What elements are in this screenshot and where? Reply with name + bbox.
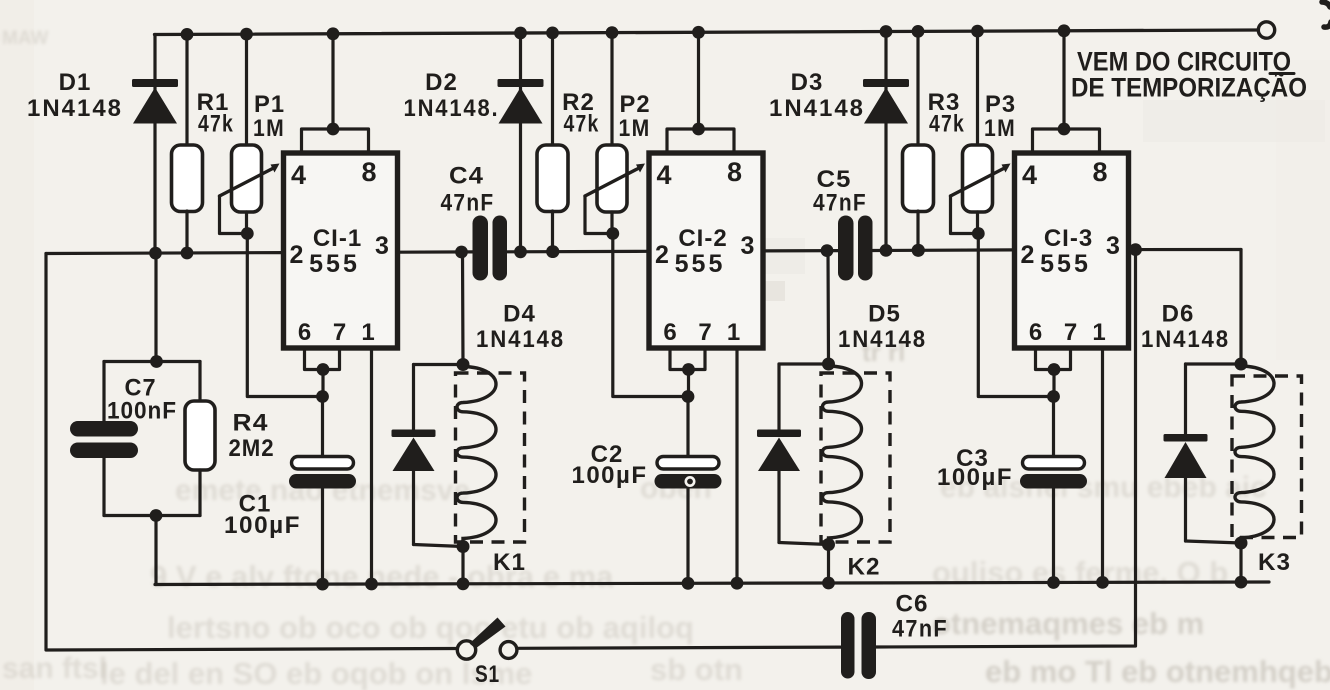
label C5 value bbox=[813, 190, 867, 217]
label C4 value bbox=[441, 190, 495, 217]
svg-text:47nF: 47nF bbox=[813, 190, 867, 217]
svg-text:S1: S1 bbox=[475, 661, 500, 688]
op-amp-timer U1 CI-1 555 box bbox=[284, 153, 398, 348]
label P3 bbox=[985, 91, 1016, 118]
label R2 bbox=[562, 89, 595, 116]
pin 2 label bbox=[655, 241, 669, 269]
svg-text:lertsno ob oco ob qoo etu ob a: lertsno ob oco ob qoo etu ob aqiloq bbox=[167, 610, 694, 645]
wire C2 top bbox=[686, 397, 689, 458]
potentiometer P2 bbox=[585, 145, 645, 212]
wire bottom rail right segment bbox=[876, 250, 1136, 647]
junction R1 supply rail bbox=[181, 28, 194, 41]
diode D2 bbox=[498, 79, 544, 124]
label CI-3 bbox=[1044, 225, 1093, 252]
label S1 bbox=[475, 661, 500, 688]
svg-text:CI-3: CI-3 bbox=[1044, 225, 1093, 252]
svg-text:1M: 1M bbox=[984, 115, 1016, 142]
junction C7-R4 bottom node bbox=[150, 509, 163, 522]
svg-text:C6: C6 bbox=[896, 591, 929, 618]
label P3 value bbox=[984, 115, 1016, 142]
wire C7-R4 riser bbox=[154, 253, 157, 362]
wire C3 top bbox=[1052, 397, 1055, 458]
pin 8 label bbox=[727, 157, 742, 187]
node K2 top bbox=[822, 358, 835, 371]
label R3 value bbox=[929, 111, 965, 138]
svg-text:6: 6 bbox=[298, 319, 311, 346]
svg-text:9 V e alv ftone nede - obra e: 9 V e alv ftone nede - obra e ma bbox=[150, 559, 614, 594]
svg-text:47nF: 47nF bbox=[441, 190, 495, 217]
svg-text:CI-2: CI-2 bbox=[678, 225, 727, 252]
svg-text:1: 1 bbox=[1092, 319, 1105, 346]
wire pin 1 to ground bbox=[1101, 348, 1104, 582]
svg-text:K2: K2 bbox=[848, 554, 881, 581]
node K3 top bbox=[1235, 358, 1248, 371]
junction CI-1 supply rail bbox=[327, 27, 340, 40]
wire C1 bottom bbox=[321, 489, 324, 585]
label P2 value bbox=[619, 115, 651, 142]
junction node timing bbox=[682, 390, 695, 403]
label R4 value bbox=[229, 435, 275, 462]
label C1 bbox=[239, 491, 272, 518]
relay K2 dashed case bbox=[821, 373, 890, 542]
svg-text:1M: 1M bbox=[619, 115, 651, 142]
junction relay K2 feed bbox=[821, 244, 834, 257]
label D6 bbox=[1162, 301, 1195, 328]
label P1 bbox=[254, 91, 285, 118]
svg-text:D3: D3 bbox=[791, 69, 824, 96]
pin 8 label bbox=[361, 157, 376, 187]
wire P3 top bbox=[976, 31, 979, 146]
diode D5 flyback bbox=[757, 364, 829, 545]
junction C3 ground bbox=[1047, 576, 1060, 589]
relay coil K3 bbox=[1235, 366, 1274, 542]
svg-text:4: 4 bbox=[656, 160, 671, 190]
svg-text:1N4148: 1N4148 bbox=[1141, 326, 1230, 353]
wire C7-R4 loop bottom bbox=[104, 514, 200, 517]
wire R2 bottom bbox=[551, 211, 554, 252]
junction pins 4-8 node bbox=[692, 123, 705, 136]
svg-text:100µF: 100µF bbox=[224, 512, 301, 539]
svg-text:1N4148: 1N4148 bbox=[476, 326, 565, 353]
wire K1 feed bbox=[461, 252, 465, 365]
junction D2 supply rail bbox=[514, 27, 527, 40]
diode D6 flyback bbox=[1164, 364, 1242, 543]
wire CI-3 pin 3 output bbox=[1129, 248, 1242, 251]
label C7 bbox=[125, 375, 157, 402]
wire C1 top bbox=[321, 397, 324, 458]
capacitor C4 bbox=[473, 216, 508, 281]
label P2 bbox=[620, 91, 651, 118]
junction C1 ground bbox=[316, 578, 329, 591]
svg-text:1N4148.: 1N4148. bbox=[404, 95, 500, 122]
pin 8 label bbox=[1092, 157, 1107, 187]
junction R2 pullup bbox=[547, 245, 560, 258]
capacitor C3 bbox=[1020, 457, 1087, 489]
junction R3 pullup bbox=[912, 244, 925, 257]
junction D3 clamp bbox=[880, 244, 893, 257]
svg-text:555: 555 bbox=[675, 250, 726, 278]
label K1 bbox=[493, 549, 526, 576]
svg-text:8: 8 bbox=[361, 157, 376, 187]
wire C2 bottom bbox=[686, 489, 689, 584]
label D4 bbox=[503, 301, 536, 328]
junction P2 supply rail bbox=[606, 26, 619, 39]
pin 3 label bbox=[1106, 232, 1120, 260]
wire K1 to ground bbox=[461, 547, 464, 584]
label C3 bbox=[956, 445, 989, 472]
pin 1 label bbox=[1092, 319, 1105, 346]
junction CI-3 output node bbox=[1129, 243, 1142, 256]
junction R3 bottom bbox=[912, 244, 925, 257]
wire R3 bottom bbox=[916, 211, 919, 250]
junction R2 supply rail bbox=[546, 27, 559, 40]
capacitor C2 bbox=[655, 457, 722, 489]
svg-text:7: 7 bbox=[1064, 319, 1077, 346]
label K2 bbox=[848, 554, 881, 581]
pin 3 label bbox=[375, 232, 389, 260]
wire pins 6-7 bracket bbox=[670, 348, 705, 397]
label R2 value bbox=[564, 111, 600, 138]
junction R3 supply rail bbox=[912, 25, 925, 38]
svg-text:47k: 47k bbox=[564, 111, 600, 138]
svg-text:R4: R4 bbox=[233, 410, 269, 437]
junction pin 1 ground bbox=[731, 577, 744, 590]
junction relay K1 feed bbox=[455, 246, 468, 259]
label D3 bbox=[791, 69, 824, 96]
capacitor C7 bbox=[70, 362, 138, 516]
junction pins 6-7 node bbox=[317, 363, 330, 376]
label C2 bbox=[591, 441, 624, 468]
svg-text:P2: P2 bbox=[620, 91, 651, 118]
svg-text:1: 1 bbox=[361, 319, 374, 346]
diode D3 bbox=[863, 79, 909, 124]
wire P1 wiper loop bbox=[220, 196, 248, 234]
label 555 bbox=[309, 250, 360, 278]
label D2 bbox=[425, 69, 458, 96]
label VEM DO CIRCUITO bbox=[1077, 47, 1294, 77]
label R3 bbox=[928, 89, 961, 116]
svg-text:K1: K1 bbox=[493, 549, 526, 576]
node K1 top bbox=[457, 358, 470, 371]
svg-text:47nF: 47nF bbox=[892, 616, 948, 643]
wire R1 top bbox=[185, 34, 188, 146]
svg-text:8: 8 bbox=[1092, 157, 1107, 187]
junction pins 4-8 node bbox=[1058, 123, 1071, 136]
svg-text:555: 555 bbox=[309, 250, 360, 278]
svg-text:le del en SO eb oqob on lsme: le del en SO eb oqob on lsme bbox=[100, 656, 532, 690]
pin 7 label bbox=[698, 319, 711, 346]
junction node timing bbox=[1047, 390, 1060, 403]
junction P2 bottom bbox=[606, 227, 619, 240]
wire pin 1 to ground bbox=[370, 348, 373, 584]
svg-text:DE TEMPORIZAÇÃO: DE TEMPORIZAÇÃO bbox=[1071, 72, 1307, 103]
label C1 value bbox=[224, 512, 301, 539]
label D1 bbox=[59, 69, 92, 96]
junction CI-3 supply rail bbox=[1058, 24, 1071, 37]
label R1 bbox=[197, 89, 230, 116]
svg-text:100µF: 100µF bbox=[572, 462, 648, 489]
svg-text:7: 7 bbox=[698, 319, 711, 346]
svg-text:555: 555 bbox=[1040, 250, 1091, 278]
junction D2 clamp bbox=[514, 245, 527, 258]
label D4 value bbox=[476, 326, 565, 353]
svg-text:eb mo Tl eb otnemhqebr: eb mo Tl eb otnemhqebr bbox=[985, 654, 1330, 689]
label D5 bbox=[868, 301, 901, 328]
label C4 bbox=[449, 163, 484, 190]
wire K2 to ground bbox=[827, 545, 830, 584]
wire C5 to next stage pin 2 bbox=[873, 248, 1015, 252]
potentiometer P3 bbox=[951, 145, 1011, 212]
svg-text:1: 1 bbox=[727, 319, 740, 346]
junction pin 1 ground bbox=[1096, 576, 1109, 589]
label CI-2 bbox=[678, 225, 727, 252]
svg-text:MAW: MAW bbox=[2, 28, 49, 49]
svg-text:C4: C4 bbox=[449, 163, 484, 190]
label D5 value bbox=[838, 326, 927, 353]
svg-text:7: 7 bbox=[333, 319, 346, 346]
wire bottom rail middle segment bbox=[518, 647, 841, 648]
op-amp-timer U3 CI-3 555 box bbox=[1015, 153, 1129, 348]
svg-text:47k: 47k bbox=[198, 111, 234, 138]
junction K1 ground bbox=[457, 577, 470, 590]
svg-text:sb otn: sb otn bbox=[650, 652, 743, 687]
pin 1 label bbox=[727, 319, 740, 346]
junction C2 ground bbox=[682, 577, 695, 590]
svg-text:3: 3 bbox=[1106, 232, 1120, 260]
label D1 value bbox=[27, 95, 123, 122]
label 555 bbox=[675, 250, 726, 278]
relay coil K1 bbox=[457, 367, 496, 546]
svg-text:1M: 1M bbox=[253, 115, 285, 142]
pin 6 label bbox=[1029, 319, 1042, 346]
junction D3 supply rail bbox=[880, 25, 893, 38]
junction pin 1 ground bbox=[365, 578, 378, 591]
pin 4 label bbox=[656, 160, 671, 190]
pin 4 label bbox=[1022, 160, 1037, 190]
svg-text:2M2: 2M2 bbox=[229, 435, 275, 462]
junction CI-2 supply rail bbox=[692, 26, 705, 39]
label D6 value bbox=[1141, 326, 1230, 353]
wire C3 bottom bbox=[1052, 489, 1055, 583]
svg-text:4: 4 bbox=[291, 160, 306, 190]
pin 3 label bbox=[741, 232, 755, 260]
svg-text:D1: D1 bbox=[59, 69, 92, 96]
junction pins 6-7 node bbox=[1048, 363, 1061, 376]
pin 6 label bbox=[298, 319, 311, 346]
wire ground rail bbox=[155, 582, 1269, 585]
svg-text:otnemaqmes eb m: otnemaqmes eb m bbox=[932, 606, 1204, 641]
node K2 bottom bbox=[822, 538, 835, 551]
junction P1 bottom bbox=[241, 227, 254, 240]
wire R2 top bbox=[551, 33, 554, 146]
resistor R4 bbox=[185, 362, 215, 516]
label P1 value bbox=[253, 115, 285, 142]
junction D1 trigger bbox=[149, 247, 162, 260]
svg-text:2: 2 bbox=[655, 241, 669, 269]
wire pins 4-8 bracket bbox=[1033, 31, 1100, 153]
svg-text:1N4148: 1N4148 bbox=[838, 326, 927, 353]
wire pins 4-8 bracket bbox=[302, 34, 369, 153]
capacitor C5 bbox=[838, 216, 873, 281]
terminal input from timing circuit bbox=[1258, 22, 1274, 38]
relay K1 dashed case bbox=[456, 373, 525, 542]
wire C7-R4 to ground bbox=[154, 516, 157, 585]
svg-text:1N4148: 1N4148 bbox=[769, 95, 865, 122]
wire P1 to pins 6-7 bbox=[247, 234, 322, 397]
relay coil K2 bbox=[823, 366, 862, 544]
resistor R3 bbox=[903, 145, 934, 212]
svg-text:ouliso es ferme. O b: ouliso es ferme. O b bbox=[932, 555, 1228, 590]
pin 2 label bbox=[1021, 241, 1035, 269]
wire P2 wiper loop bbox=[585, 196, 613, 234]
svg-text:CI-1: CI-1 bbox=[313, 225, 362, 252]
svg-text:3: 3 bbox=[375, 232, 389, 260]
resistor R2 bbox=[537, 145, 568, 212]
wire trigger into CI-1 pin 2 bbox=[46, 251, 284, 255]
diode D4 flyback bbox=[392, 365, 464, 547]
junction R1 bottom bbox=[181, 247, 194, 260]
svg-text:K3: K3 bbox=[1258, 549, 1291, 576]
junction K2 ground bbox=[822, 577, 835, 590]
label R4 bbox=[233, 410, 269, 437]
wire CI-2 pin 3 output bbox=[763, 249, 838, 252]
svg-text:D4: D4 bbox=[503, 301, 536, 328]
wire pins 6-7 bracket bbox=[305, 348, 340, 397]
svg-text:6: 6 bbox=[1029, 319, 1042, 346]
pin 1 label bbox=[361, 319, 374, 346]
wire C4 to next stage pin 2 bbox=[508, 250, 650, 254]
wire P3 to pins 6-7 bbox=[978, 234, 1053, 397]
capacitor C1 bbox=[289, 457, 356, 489]
svg-text:1N4148: 1N4148 bbox=[27, 95, 123, 122]
junction K3 ground bbox=[1235, 576, 1248, 589]
junction R2 bottom bbox=[546, 245, 559, 258]
relay K3 dashed case bbox=[1232, 376, 1302, 538]
pin 7 label bbox=[333, 319, 346, 346]
svg-text:100nF: 100nF bbox=[107, 398, 177, 425]
wire K3 feed bbox=[1239, 250, 1242, 365]
label K3 bbox=[1258, 549, 1291, 576]
wire D1 to supply rail bbox=[153, 35, 156, 254]
op-amp-timer U2 CI-2 555 box bbox=[649, 153, 763, 348]
label D3 value bbox=[769, 95, 865, 122]
junction P3 supply rail bbox=[971, 25, 984, 38]
label C6 value bbox=[892, 591, 948, 643]
junction C7-R4 top node bbox=[150, 355, 163, 368]
svg-text:6: 6 bbox=[663, 319, 676, 346]
svg-text:san ftsl: san ftsl bbox=[2, 652, 107, 685]
svg-text:D2: D2 bbox=[425, 69, 458, 96]
svg-text:P1: P1 bbox=[254, 91, 285, 118]
label C5 bbox=[817, 166, 852, 193]
wire pins 6-7 bracket bbox=[1036, 348, 1071, 397]
pin 6 label bbox=[663, 319, 676, 346]
svg-text:2: 2 bbox=[1021, 241, 1035, 269]
wire pins 4-8 bracket bbox=[667, 32, 734, 153]
junction pins 6-7 node bbox=[682, 363, 695, 376]
switch S1 bbox=[457, 618, 517, 660]
svg-text:D5: D5 bbox=[868, 301, 901, 328]
wire CI-1 pin 3 output bbox=[398, 250, 473, 254]
resistor R1 bbox=[172, 145, 203, 212]
wire top supply rail bbox=[155, 30, 1258, 35]
svg-text:8: 8 bbox=[727, 157, 742, 187]
label C7 value bbox=[107, 398, 177, 425]
node K1 bottom bbox=[457, 540, 470, 553]
pin 2 label bbox=[290, 241, 304, 269]
wire P3 wiper loop bbox=[951, 196, 979, 234]
svg-text:100µF: 100µF bbox=[937, 464, 1013, 491]
wire P1 top bbox=[245, 34, 248, 146]
wire K2 feed bbox=[826, 251, 830, 364]
svg-text:2: 2 bbox=[290, 241, 304, 269]
label C2 value bbox=[572, 462, 648, 489]
svg-text:47k: 47k bbox=[929, 111, 965, 138]
junction node timing bbox=[316, 390, 329, 403]
svg-text:P3: P3 bbox=[985, 91, 1016, 118]
wire P2 to pins 6-7 bbox=[613, 234, 688, 397]
label CI-1 bbox=[313, 225, 362, 252]
capacitor C6 bbox=[841, 612, 876, 679]
wire pin 1 to ground bbox=[735, 348, 738, 583]
diode D1 bbox=[132, 79, 178, 124]
potentiometer P1 bbox=[220, 145, 280, 212]
svg-text:D6: D6 bbox=[1162, 301, 1195, 328]
label DE TEMPORIZACAO bbox=[1071, 72, 1307, 103]
wire bottom rail left segment bbox=[46, 254, 457, 651]
junction pins 4-8 node bbox=[327, 123, 340, 136]
label D2 value bbox=[404, 95, 500, 122]
wire D3 to supply rail bbox=[884, 32, 887, 251]
label C3 value bbox=[937, 464, 1013, 491]
wire K3 to ground bbox=[1239, 543, 1242, 582]
junction P1 supply rail bbox=[240, 28, 253, 41]
page edge mark bbox=[1322, 2, 1330, 27]
svg-text:4: 4 bbox=[1022, 160, 1037, 190]
wire R1 bottom bbox=[185, 211, 188, 253]
wire R3 top bbox=[916, 31, 919, 146]
label 555 bbox=[1040, 250, 1091, 278]
pin 7 label bbox=[1064, 319, 1077, 346]
pin 4 label bbox=[291, 160, 306, 190]
svg-text:3: 3 bbox=[741, 232, 755, 260]
wire D2 to supply rail bbox=[519, 33, 522, 252]
node K3 bottom bbox=[1235, 537, 1248, 550]
wire C7-R4 loop top bbox=[104, 360, 200, 363]
wire P2 top bbox=[610, 33, 613, 146]
junction P3 bottom bbox=[972, 227, 985, 240]
label R1 value bbox=[198, 111, 234, 138]
